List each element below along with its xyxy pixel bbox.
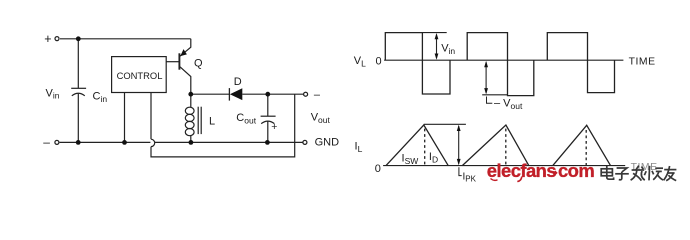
svg-text:com: com — [558, 160, 594, 181]
svg-text:+: + — [44, 32, 51, 46]
svg-text:+: + — [271, 121, 277, 133]
svg-text:CONTROL: CONTROL — [117, 70, 163, 81]
svg-text:Vin: Vin — [441, 43, 455, 56]
svg-text:IPK: IPK — [463, 171, 477, 183]
svg-text:ISW: ISW — [402, 153, 419, 166]
svg-text:Vout: Vout — [311, 112, 331, 125]
svg-text:Cin: Cin — [93, 90, 108, 103]
svg-text:0: 0 — [375, 163, 381, 175]
svg-text:VL: VL — [354, 55, 366, 68]
svg-text:Q: Q — [194, 57, 203, 69]
svg-text:D: D — [234, 76, 242, 88]
svg-text:IL: IL — [355, 141, 363, 154]
svg-text:0: 0 — [376, 56, 382, 68]
svg-text:L: L — [209, 116, 215, 128]
svg-text:TIME: TIME — [631, 162, 658, 173]
svg-text:GND: GND — [315, 136, 340, 148]
svg-text:Vin: Vin — [46, 87, 60, 100]
svg-text:Cout: Cout — [236, 112, 256, 125]
svg-text:–: – — [314, 89, 321, 101]
svg-text:ID: ID — [429, 151, 438, 164]
svg-text:– Vout: – Vout — [494, 98, 523, 111]
svg-text:–: – — [43, 135, 50, 149]
svg-text:TIME: TIME — [629, 56, 656, 67]
